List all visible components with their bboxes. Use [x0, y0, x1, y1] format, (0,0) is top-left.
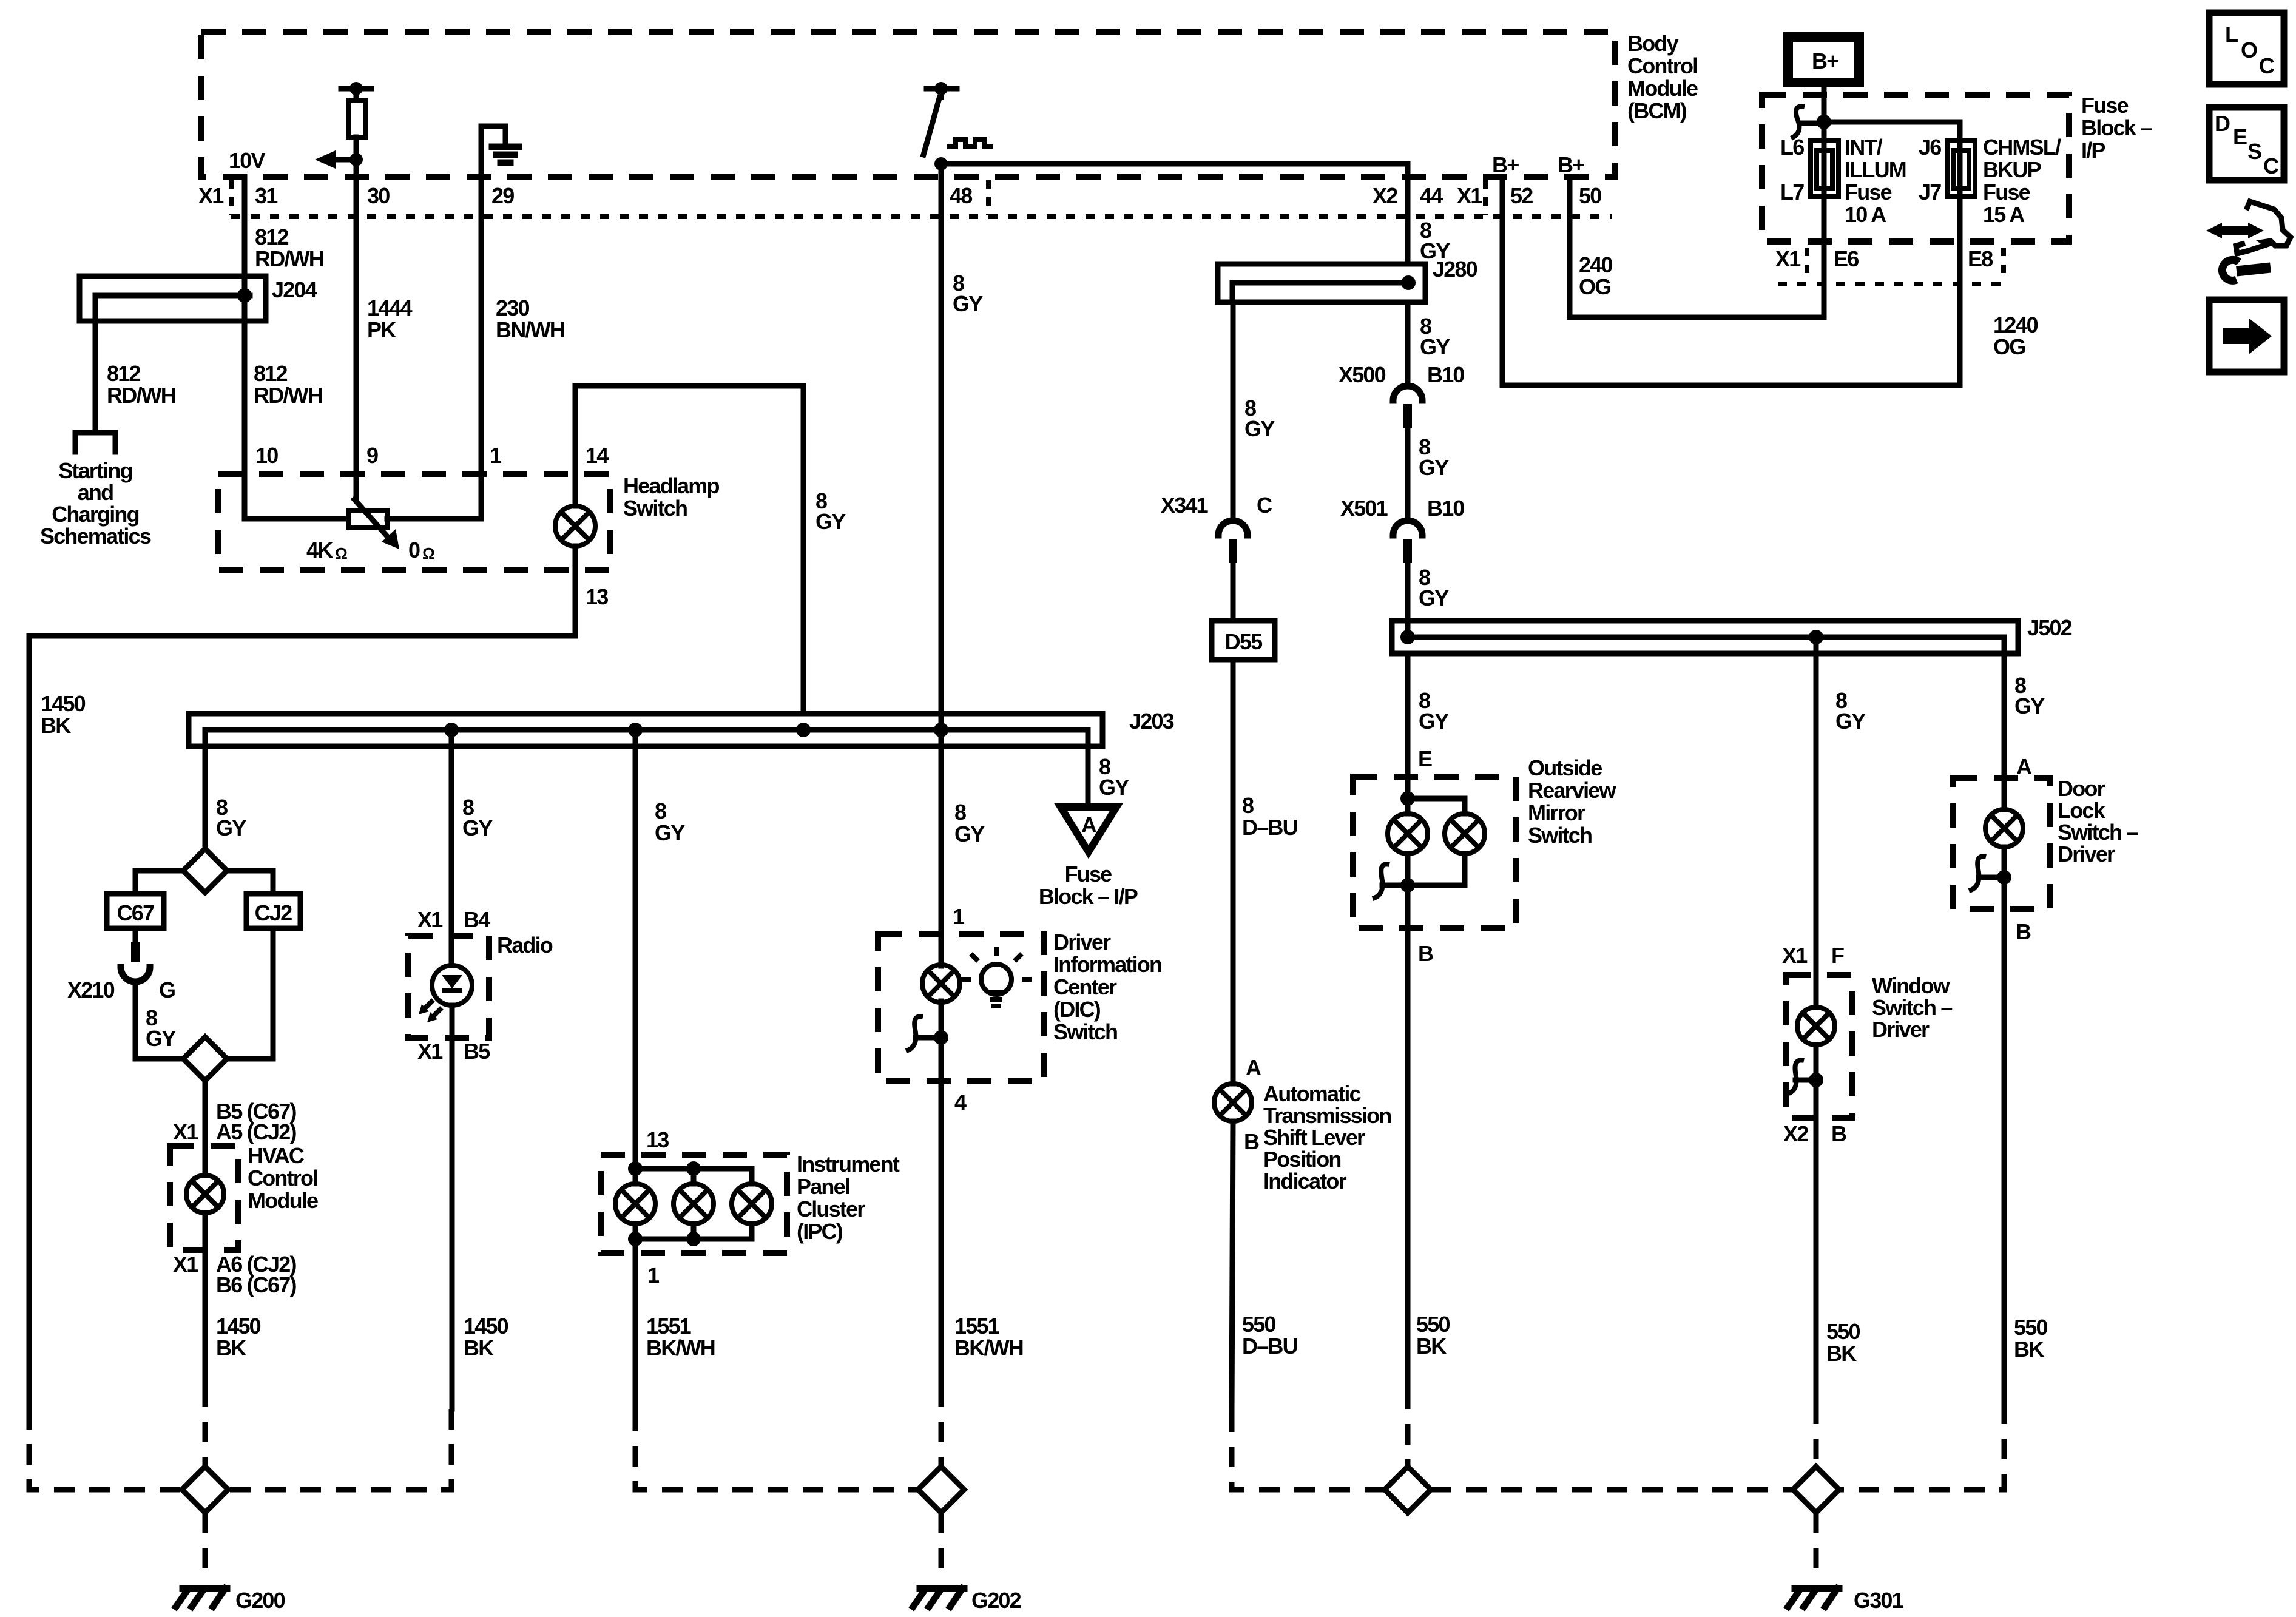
fuse CHMSL/BKUP 15 A — [1947, 141, 1975, 200]
svg-text:BK: BK — [464, 1335, 494, 1360]
arrow to other circuits (BCM internal) — [315, 150, 363, 169]
svg-text:Fuse: Fuse — [1845, 180, 1892, 204]
svg-text:48: 48 — [950, 183, 972, 208]
svg-text:550: 550 — [1826, 1319, 1860, 1344]
svg-text:Rearview: Rearview — [1528, 778, 1616, 803]
svg-text:Indicator: Indicator — [1263, 1169, 1347, 1193]
svg-text:1444: 1444 — [367, 295, 413, 320]
svg-text:29: 29 — [491, 183, 514, 208]
svg-text:4K: 4K — [306, 538, 333, 562]
svg-text:C67: C67 — [117, 900, 154, 925]
splice diamond G202 — [918, 1467, 964, 1513]
svg-text:GY: GY — [1419, 586, 1449, 610]
svg-text:Starting: Starting — [58, 458, 132, 483]
svg-text:X341: X341 — [1161, 493, 1209, 518]
battery feed B+ box — [1788, 37, 1859, 83]
svg-text:B: B — [1831, 1121, 1846, 1146]
svg-text:X500: X500 — [1339, 362, 1386, 387]
svg-text:Control: Control — [248, 1166, 317, 1190]
svg-text:ILLUM: ILLUM — [1845, 157, 1906, 182]
svg-text:X1: X1 — [198, 183, 224, 208]
svg-text:I/P: I/P — [2081, 138, 2105, 163]
svg-text:E8: E8 — [1968, 246, 1993, 271]
svg-text:15 A: 15 A — [1983, 202, 2025, 227]
svg-text:Ω: Ω — [335, 544, 347, 562]
svg-text:L6: L6 — [1780, 135, 1804, 160]
svg-text:A: A — [1246, 1055, 1261, 1080]
svg-text:812: 812 — [254, 361, 287, 386]
svg-text:X1: X1 — [173, 1252, 198, 1277]
svg-text:(DIC): (DIC) — [1053, 997, 1101, 1022]
svg-text:GY: GY — [954, 822, 985, 846]
svg-text:BK: BK — [216, 1335, 246, 1360]
connector X1-52 separator — [1483, 180, 1488, 215]
Outside Rearview Mirror Switch dashed box — [1353, 777, 1516, 928]
wire DIC pin 4 down — [939, 1081, 944, 1386]
svg-text:Switch: Switch — [623, 496, 687, 521]
wire B+ bus inside fuse block — [1817, 83, 1960, 141]
svg-text:GY: GY — [655, 820, 685, 845]
svg-text:Panel: Panel — [797, 1174, 849, 1199]
svg-text:X2: X2 — [1373, 183, 1397, 208]
ground G202 — [913, 1588, 964, 1607]
svg-text:X2: X2 — [1783, 1121, 1808, 1146]
svg-text:1: 1 — [647, 1263, 660, 1288]
wire diamond to HVAC module — [203, 1081, 208, 1146]
svg-text:14: 14 — [586, 443, 609, 468]
LED illumination (radio) — [419, 965, 472, 1409]
svg-text:Block – I/P: Block – I/P — [1039, 884, 1138, 909]
svg-text:J502: J502 — [2027, 615, 2072, 640]
svg-text:1450: 1450 — [41, 691, 86, 716]
svg-text:GY: GY — [1099, 775, 1129, 800]
potentiometer 4K ohm (headlamp switch) — [245, 499, 481, 549]
svg-text:X1: X1 — [1775, 246, 1801, 271]
svg-text:J203: J203 — [1129, 709, 1174, 734]
off-page connector bracket (to Starting and Charging) — [75, 433, 115, 452]
ground G200 — [176, 1588, 227, 1607]
svg-text:F: F — [1831, 943, 1844, 968]
connector E8 separator — [2001, 248, 2006, 282]
splice pack J280 — [1218, 264, 1425, 302]
connector C67 — [107, 894, 164, 928]
svg-text:BKUP: BKUP — [1983, 157, 2041, 182]
wire dashed 1450 BK left to G200 bus — [29, 1409, 182, 1490]
Window Switch - Driver dashed box — [1786, 975, 1852, 1118]
svg-text:52: 52 — [1510, 183, 1533, 208]
svg-text:BK/WH: BK/WH — [646, 1335, 715, 1360]
svg-text:Fuse: Fuse — [1983, 180, 2030, 204]
svg-text:D: D — [2215, 111, 2230, 136]
wire pin 31 (812 RD/WH) through J204 — [242, 177, 248, 519]
svg-text:Ω: Ω — [422, 544, 434, 562]
Body Control Module (BCM) dashed box — [201, 32, 1615, 177]
svg-text:Driver: Driver — [1053, 930, 1111, 954]
lamp (door lock backlight) — [1985, 809, 2023, 1403]
svg-text:J6: J6 — [1919, 135, 1941, 160]
svg-text:Switch: Switch — [1053, 1019, 1117, 1044]
svg-text:Block –: Block – — [2081, 115, 2152, 140]
splice diamond G200 — [182, 1467, 228, 1513]
svg-text:Switch –: Switch – — [1872, 995, 1952, 1020]
svg-text:1: 1 — [953, 904, 965, 929]
svg-text:E: E — [2233, 124, 2247, 149]
wire J502 to door lock switch (8 GY) — [2002, 653, 2007, 809]
splice diamond upper (HVAC branch) — [183, 849, 227, 893]
svg-text:G: G — [159, 977, 175, 1002]
sidebar LOC box — [2209, 13, 2284, 84]
lamp (DIC backlight) — [922, 934, 960, 1081]
sidebar DESC box — [2209, 107, 2284, 180]
svg-text:GY: GY — [462, 815, 493, 840]
svg-text:and: and — [78, 480, 113, 505]
wire dashed IPC to G202 bus — [635, 1411, 918, 1490]
Fuse Block - I/P dashed box — [1762, 95, 2069, 241]
connector pin-48 separator — [986, 180, 991, 215]
svg-text:RD/WH: RD/WH — [107, 383, 175, 408]
svg-text:Automatic: Automatic — [1263, 1081, 1361, 1106]
svg-text:X1: X1 — [1782, 943, 1808, 968]
wire dashed G200 splice to ground — [203, 1513, 208, 1582]
splice pack J204 — [79, 276, 266, 321]
connector CJ2 — [246, 894, 300, 928]
svg-text:Switch: Switch — [1528, 823, 1592, 848]
wire dashed window leg to G301 splice — [1814, 1403, 1819, 1467]
svg-text:10 A: 10 A — [1845, 202, 1886, 227]
case ground hook and junction (window switch) — [1789, 1060, 1823, 1093]
svg-text:HVAC: HVAC — [248, 1143, 305, 1168]
svg-text:Information: Information — [1053, 952, 1161, 977]
wire D55 to shift indicator (8 D-BU) — [1231, 660, 1236, 1084]
lamp (headlamp switch backlight) — [555, 386, 595, 636]
sidebar wrench icon — [2222, 260, 2271, 280]
svg-text:Center: Center — [1053, 974, 1117, 999]
resistor (BCM internal) — [341, 82, 371, 160]
svg-text:BK: BK — [1826, 1341, 1857, 1366]
wire fuse E8 to BCM pin 52 (1240 OG) — [1502, 177, 1960, 385]
svg-text:D–BU: D–BU — [1242, 815, 1297, 840]
Door Lock Switch - Driver dashed box — [1953, 778, 2050, 909]
wire J203 to IPC (8 GY) — [633, 730, 638, 1169]
svg-text:X1: X1 — [417, 907, 443, 932]
connector D55 — [1212, 621, 1275, 660]
ground (BCM internal) — [481, 126, 519, 177]
svg-text:Window: Window — [1872, 973, 1951, 998]
svg-text:4: 4 — [954, 1090, 967, 1115]
svg-text:GY: GY — [1419, 709, 1449, 734]
wire diamond to CJ2 — [227, 871, 273, 894]
svg-text:Fuse: Fuse — [1065, 862, 1112, 886]
svg-text:GY: GY — [1244, 416, 1275, 441]
svg-text:Outside: Outside — [1528, 755, 1602, 780]
svg-text:30: 30 — [367, 183, 390, 208]
connector X1 separator (fuse block) — [1805, 248, 1809, 282]
svg-text:A5 (CJ2): A5 (CJ2) — [216, 1119, 296, 1144]
fuse block connector strip dotted line — [1778, 282, 2002, 286]
wire pin 48 vertical (8 GY) — [939, 164, 944, 934]
svg-text:812: 812 — [255, 224, 288, 249]
svg-text:B+: B+ — [1812, 49, 1838, 73]
svg-text:550: 550 — [2014, 1315, 2047, 1340]
svg-text:GY: GY — [1420, 334, 1450, 359]
svg-text:INT/: INT/ — [1845, 135, 1883, 160]
wire pin 30 (1444 PK) — [354, 160, 359, 499]
svg-text:550: 550 — [1242, 1312, 1275, 1337]
svg-text:BK/WH: BK/WH — [954, 1335, 1023, 1360]
connector X501 pin B10 — [1393, 521, 1422, 637]
connector X1 separator — [229, 180, 234, 215]
svg-text:1450: 1450 — [464, 1314, 508, 1338]
svg-text:Shift Lever: Shift Lever — [1263, 1125, 1365, 1150]
wire J203 to fuse block triangle (8 GY) — [1086, 746, 1091, 807]
Headlamp Switch dashed box — [218, 474, 610, 570]
svg-text:GY: GY — [2014, 694, 2045, 718]
lamp pair (mirror switch backlights) — [1388, 791, 1485, 928]
svg-text:10: 10 — [255, 443, 278, 468]
lamp (window switch backlight) — [1797, 975, 1835, 1403]
svg-text:Driver: Driver — [1872, 1017, 1930, 1042]
svg-text:B6 (C67): B6 (C67) — [216, 1272, 296, 1297]
splice diamond (mirror leg) — [1385, 1467, 1431, 1513]
svg-text:8: 8 — [655, 798, 666, 823]
svg-text:Transmission: Transmission — [1263, 1103, 1391, 1128]
connector X341 pin C — [1218, 521, 1248, 621]
lamp bank (IPC backlights) — [615, 1161, 772, 1411]
wire dashed mirror leg to G301 splice — [1405, 1389, 1411, 1467]
svg-text:1551: 1551 — [646, 1314, 692, 1338]
wire dashed DIC to G202 splice — [939, 1386, 944, 1467]
svg-text:Radio: Radio — [497, 933, 553, 957]
svg-text:Lock: Lock — [2058, 798, 2106, 823]
power triangle A (Fuse Block - I/P) — [1061, 807, 1116, 852]
svg-text:G301: G301 — [1854, 1588, 1904, 1613]
svg-text:X1: X1 — [173, 1119, 198, 1144]
svg-text:Control: Control — [1627, 53, 1697, 78]
svg-text:X210: X210 — [67, 977, 115, 1002]
Radio dashed box — [408, 936, 489, 1038]
svg-text:BK: BK — [2014, 1337, 2044, 1362]
svg-text:GY: GY — [1835, 709, 1866, 734]
wire diamond to C67 — [135, 871, 183, 894]
lamp (HVAC backlight) — [186, 1146, 224, 1386]
svg-text:G200: G200 — [235, 1588, 285, 1613]
connector X210 pin G — [121, 928, 150, 1059]
svg-text:L: L — [2225, 22, 2238, 47]
svg-text:GY: GY — [146, 1026, 176, 1051]
svg-text:0: 0 — [408, 538, 420, 562]
wire headlamp 14 to J203 (8 GY) — [575, 386, 803, 714]
svg-text:Mirror: Mirror — [1528, 800, 1585, 825]
svg-text:A: A — [1081, 812, 1097, 837]
svg-text:O: O — [2241, 38, 2257, 62]
svg-text:B4: B4 — [464, 907, 490, 932]
wire J203 to Radio (8 GY) — [449, 730, 454, 965]
svg-text:31: 31 — [255, 183, 278, 208]
svg-text:1551: 1551 — [954, 1314, 1000, 1338]
case ground hook and junction (DIC) — [906, 1016, 948, 1051]
svg-text:GY: GY — [1419, 455, 1449, 480]
Driver Information Center Switch dashed box — [878, 934, 1044, 1081]
svg-text:Charging: Charging — [52, 502, 139, 527]
svg-text:(IPC): (IPC) — [797, 1219, 843, 1244]
svg-text:50: 50 — [1579, 183, 1601, 208]
case ground hook and junction (door lock) — [1969, 856, 2011, 891]
wire PWM junction to pin 44 — [941, 164, 1408, 263]
wire J502 to mirror switch (8 GY) — [1405, 653, 1411, 814]
svg-text:550: 550 — [1416, 1312, 1450, 1337]
svg-text:E: E — [1418, 746, 1432, 771]
HVAC Control Module dashed box — [170, 1146, 238, 1250]
svg-text:B10: B10 — [1427, 496, 1464, 521]
svg-text:812: 812 — [107, 361, 140, 386]
svg-text:RD/WH: RD/WH — [254, 383, 322, 408]
BCM connector strip dotted line — [231, 214, 1612, 219]
sidebar arrow box — [2209, 300, 2284, 372]
svg-text:C: C — [2263, 154, 2279, 178]
wire fuse E6 to BCM pin 50 (240 OG) — [1570, 177, 1824, 317]
wire dashed radio leg to G200 bus — [228, 1409, 451, 1490]
svg-text:A: A — [2016, 754, 2032, 779]
wire J280 left leg to X341 — [1231, 302, 1236, 521]
svg-text:BN/WH: BN/WH — [496, 317, 564, 342]
svg-text:Body: Body — [1627, 31, 1679, 56]
svg-text:C: C — [1257, 493, 1272, 518]
svg-text:D55: D55 — [1225, 629, 1263, 654]
svg-text:B+: B+ — [1558, 152, 1584, 177]
splice diamond lower (HVAC branch) — [135, 1037, 273, 1081]
svg-text:9: 9 — [366, 443, 378, 468]
svg-text:8: 8 — [954, 800, 966, 825]
svg-text:X1: X1 — [417, 1039, 443, 1064]
svg-text:X1: X1 — [1457, 183, 1482, 208]
wire headlamp 13 to 1450 BK run — [29, 636, 575, 1409]
svg-text:13: 13 — [586, 584, 608, 609]
svg-text:E6: E6 — [1834, 246, 1859, 271]
wire CJ2 down leg — [271, 928, 276, 1059]
svg-text:OG: OG — [1579, 274, 1610, 299]
svg-text:X501: X501 — [1340, 496, 1388, 521]
wire dashed shift indicator to G301 bus — [1232, 1411, 1385, 1490]
svg-text:B: B — [2016, 919, 2031, 944]
Instrument Panel Cluster dashed box — [601, 1155, 787, 1253]
svg-text:D–BU: D–BU — [1242, 1334, 1297, 1359]
svg-text:GY: GY — [953, 291, 983, 316]
wire J204 left leg (812 RD/WH) — [93, 321, 98, 433]
svg-text:C: C — [2259, 53, 2275, 78]
svg-text:Module: Module — [1627, 76, 1698, 101]
sidebar hand icon with double arrow — [2206, 201, 2291, 254]
svg-text:GY: GY — [815, 509, 846, 534]
svg-text:1450: 1450 — [216, 1314, 261, 1338]
svg-text:10V: 10V — [229, 148, 265, 173]
svg-text:GY: GY — [216, 815, 246, 840]
bulb icon (DIC) — [961, 947, 1032, 1006]
svg-text:13: 13 — [646, 1127, 669, 1152]
case ground hook and junction (mirror switch) — [1373, 864, 1415, 899]
svg-text:J7: J7 — [1919, 180, 1941, 204]
splice pack J502 — [1392, 621, 2018, 653]
wire dashed HVAC to G200 splice — [203, 1386, 208, 1467]
wire dashed door lock leg to G301 bus — [1839, 1403, 2004, 1490]
wire pin 29 (230 BN/WH) — [479, 177, 484, 519]
svg-text:B: B — [1418, 941, 1433, 966]
svg-text:240: 240 — [1579, 252, 1612, 277]
svg-text:L7: L7 — [1780, 180, 1804, 204]
svg-text:Cluster: Cluster — [797, 1197, 865, 1221]
svg-text:B5: B5 — [464, 1039, 490, 1064]
case-feed hook (fuse block B+) — [1791, 106, 1824, 138]
svg-text:B: B — [1244, 1129, 1259, 1154]
wire J280 to X500 — [1405, 302, 1411, 386]
svg-text:Instrument: Instrument — [797, 1152, 900, 1176]
wire J203 to splice diamond (8 GY) — [203, 746, 208, 849]
svg-text:OG: OG — [1993, 334, 2025, 359]
svg-text:CHMSL/: CHMSL/ — [1983, 135, 2061, 160]
svg-text:Position: Position — [1263, 1147, 1341, 1172]
svg-text:BK: BK — [41, 713, 71, 738]
svg-text:BK: BK — [1416, 1334, 1447, 1359]
svg-text:Door: Door — [2058, 776, 2105, 801]
splice pack J203 — [189, 714, 1102, 746]
svg-text:Driver: Driver — [2058, 842, 2115, 866]
svg-text:B10: B10 — [1427, 362, 1464, 387]
svg-text:(BCM): (BCM) — [1627, 98, 1687, 123]
svg-text:1: 1 — [490, 443, 502, 468]
wire J502 to window switch (8 GY) — [1814, 637, 1819, 975]
svg-text:RD/WH: RD/WH — [255, 246, 323, 271]
svg-text:Module: Module — [248, 1188, 318, 1213]
fuse INT/ILLUM 10 A — [1811, 141, 1838, 200]
splice diamond G301 — [1793, 1467, 1839, 1513]
svg-text:230: 230 — [496, 295, 529, 320]
svg-text:G202: G202 — [971, 1588, 1021, 1613]
ground G301 — [1788, 1588, 1839, 1607]
svg-text:B+: B+ — [1492, 152, 1519, 177]
svg-text:44: 44 — [1420, 183, 1443, 208]
wire dashed bus to G301 splice — [1431, 1487, 1793, 1493]
svg-text:PK: PK — [367, 317, 396, 342]
wire mirror switch down (550 BK) — [1405, 928, 1411, 1389]
svg-text:J280: J280 — [1433, 257, 1477, 282]
svg-text:Headlamp: Headlamp — [623, 473, 719, 498]
svg-text:J204: J204 — [272, 277, 317, 302]
wire dashed G202 splice to ground — [939, 1513, 944, 1582]
svg-text:Schematics: Schematics — [40, 524, 151, 549]
wire dashed G301 splice to ground — [1814, 1513, 1819, 1582]
svg-text:8: 8 — [1242, 793, 1254, 818]
svg-text:S: S — [2247, 139, 2261, 164]
switch PWM (BCM internal) — [923, 82, 993, 170]
svg-text:1240: 1240 — [1993, 312, 2038, 337]
lamp Automatic Transmission Shift Lever Position Indicator — [1214, 1084, 1252, 1411]
svg-text:CJ2: CJ2 — [255, 900, 292, 925]
svg-text:Fuse: Fuse — [2081, 93, 2129, 118]
connector X500 pin B10 — [1393, 386, 1422, 521]
svg-text:Switch –: Switch – — [2058, 820, 2138, 845]
